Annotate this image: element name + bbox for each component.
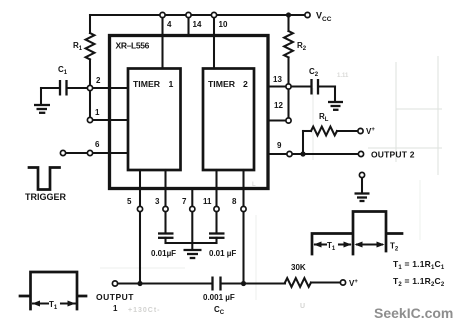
svg-text:TIMER: TIMER <box>208 79 236 89</box>
op IC U1 XR-L556 outline <box>110 36 269 189</box>
wire from rail down to R1 <box>89 15 91 33</box>
pin 5 <box>139 170 141 206</box>
svg-text:XR–L556: XR–L556 <box>116 41 150 51</box>
wire bottom <box>118 282 211 284</box>
wire pin2 to pin1 <box>89 91 91 117</box>
svg-text:1: 1 <box>113 304 118 313</box>
resistor R1 <box>86 33 95 59</box>
wire CC to 30K <box>222 282 285 284</box>
terminal V+ (RL) <box>358 128 363 133</box>
waveform OUTPUT 1 pulse <box>20 272 86 309</box>
pin 4 <box>161 15 163 69</box>
pin 14 <box>187 15 189 36</box>
pin 9 <box>268 153 287 155</box>
svg-text:5: 5 <box>127 197 132 206</box>
capacitor C2 <box>292 85 311 87</box>
svg-text:30K: 30K <box>291 263 306 272</box>
svg-text:TRIGGER: TRIGGER <box>25 192 67 202</box>
ground below C2 <box>328 102 343 110</box>
ground terminal below OUTPUT 2 <box>359 172 364 177</box>
pin 8 <box>242 170 244 206</box>
dimension T1 (left waveform) <box>33 302 75 304</box>
pin 13 <box>268 85 286 87</box>
svg-text:OUTPUT 2: OUTPUT 2 <box>371 150 415 160</box>
svg-text:SeekIC.com: SeekIC.com <box>374 305 453 321</box>
resistor R2 <box>287 15 289 31</box>
dimension T1 T2 (right waveform) <box>315 243 382 245</box>
pin 11 <box>215 170 217 206</box>
wire pin9 to output2 <box>293 153 359 155</box>
svg-text:0.01µF: 0.01µF <box>151 249 176 258</box>
svg-text:14: 14 <box>193 20 202 29</box>
svg-text:+130Ct-: +130Ct- <box>128 307 160 314</box>
wire caps common <box>166 242 217 244</box>
svg-text:3: 3 <box>155 197 160 206</box>
resistor RL <box>303 130 311 132</box>
node pin5 junction <box>137 281 142 286</box>
svg-text:7: 7 <box>182 197 187 206</box>
svg-text:0.001 µF: 0.001 µF <box>203 293 235 302</box>
pin 6 <box>66 152 128 154</box>
wire pin13 to pin12 <box>287 90 289 118</box>
capacitor CC 0.001uF <box>211 277 213 291</box>
pin 2 <box>93 87 128 89</box>
capacitor 0.01uF (pin3) <box>158 234 174 238</box>
svg-text:U: U <box>300 303 305 310</box>
node pin8 junction <box>241 281 246 286</box>
svg-text:9: 9 <box>277 141 282 150</box>
block TIMER 2 <box>203 69 254 171</box>
wire up to RL <box>302 131 304 154</box>
node RL junction <box>300 151 305 156</box>
svg-text:13: 13 <box>273 75 282 84</box>
resistor 30K <box>285 278 311 287</box>
capacitor C1 <box>68 87 87 89</box>
terminal OUTPUT 1 <box>112 281 117 286</box>
terminal VCC <box>305 12 310 17</box>
svg-text:TIMER: TIMER <box>133 79 161 89</box>
pin 1 <box>93 119 128 121</box>
trigger waveform <box>29 168 60 190</box>
pin 12 <box>268 119 286 121</box>
svg-text:12: 12 <box>274 101 283 110</box>
wire C1 to ground <box>40 88 42 103</box>
capacitor 0.01uF (pin11) <box>209 234 225 238</box>
svg-text:2: 2 <box>243 79 248 89</box>
svg-text:1: 1 <box>169 79 174 89</box>
terminal trigger input <box>60 150 65 155</box>
pin 7 <box>191 189 193 206</box>
svg-text:8: 8 <box>232 197 237 206</box>
svg-text:L: L <box>252 182 256 188</box>
pin 3 <box>164 170 166 206</box>
terminal OUTPUT 2 <box>358 151 363 156</box>
svg-text:6: 6 <box>95 140 100 149</box>
svg-text:2: 2 <box>96 76 101 85</box>
svg-text:1.11: 1.11 <box>337 73 349 79</box>
svg-text:OUTPUT: OUTPUT <box>96 292 134 302</box>
svg-text:10: 10 <box>219 20 228 29</box>
ground below C1 <box>34 105 50 113</box>
block TIMER 1 <box>128 69 181 171</box>
node VCC junction <box>286 12 291 17</box>
wire VCC top rail <box>90 14 304 16</box>
pin 10 <box>213 15 215 69</box>
wire C2 to ground <box>334 87 336 102</box>
terminal V+ (30K) <box>340 280 345 285</box>
ground below pin 7 <box>184 250 202 258</box>
svg-text:0.01 µF: 0.01 µF <box>209 249 236 258</box>
waveform OUTPUT 2 pulse <box>312 212 402 255</box>
svg-text:1: 1 <box>95 108 100 117</box>
svg-text:4: 4 <box>167 20 172 29</box>
svg-text:11: 11 <box>203 197 212 206</box>
wire R1 to pin2 <box>89 59 91 88</box>
